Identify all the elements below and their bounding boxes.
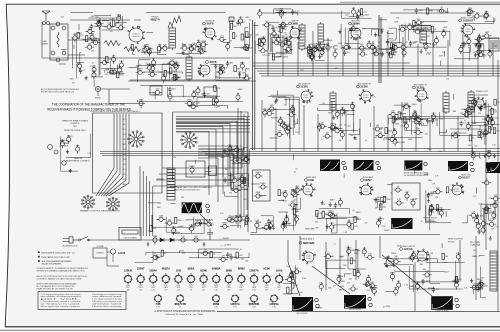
wire <box>272 37 289 52</box>
resistor R131 <box>237 176 246 182</box>
capacitor C132 <box>487 220 496 226</box>
resistor R195 <box>191 236 200 242</box>
capacitor C41 <box>342 44 351 50</box>
wire <box>135 251 153 262</box>
wire <box>387 32 394 33</box>
remote receiver chassis box <box>93 113 163 193</box>
resistor R115 <box>393 137 397 146</box>
ground <box>329 202 332 206</box>
capacitor C36 <box>276 35 280 44</box>
capacitor C33 <box>272 39 281 45</box>
wire <box>409 266 462 289</box>
resistor R96 <box>318 123 327 129</box>
label 3BN6 <box>349 20 362 26</box>
scope cal circle <box>343 166 346 169</box>
resistor R25 <box>232 33 237 39</box>
wire <box>141 85 184 97</box>
capacitor C81 <box>388 111 397 117</box>
capacitor C87 <box>484 131 492 137</box>
ground <box>285 48 288 52</box>
scope calibration W1 <box>206 204 210 208</box>
resistor R88 <box>265 110 274 116</box>
resistor R114 <box>404 117 411 123</box>
wire <box>390 265 413 292</box>
resistor R13 <box>112 20 119 26</box>
capacitor C55 <box>474 41 483 47</box>
tuner coil <box>57 32 59 47</box>
ground <box>175 75 178 79</box>
capacitor C139 <box>368 282 377 288</box>
wire <box>454 38 478 58</box>
capacitor C18 <box>180 44 189 50</box>
resistor R128 <box>245 155 250 164</box>
capacitor C130 <box>427 192 434 198</box>
wire <box>195 223 207 228</box>
ground <box>489 236 492 240</box>
ground <box>432 42 435 46</box>
capacitor C111 <box>282 221 290 227</box>
resistor R65 <box>272 29 276 38</box>
label 3AT8 <box>206 60 217 64</box>
capacitor C51 <box>424 42 429 51</box>
resistor R125 <box>189 165 195 174</box>
resistor R73 <box>309 49 314 58</box>
capacitor C85 <box>464 106 473 112</box>
resistor R66 <box>468 10 475 16</box>
wire <box>335 123 343 128</box>
phono jack tube <box>95 86 100 91</box>
wire <box>493 204 495 220</box>
capacitor C70 <box>291 105 295 114</box>
capacitor C122 <box>374 197 381 203</box>
capacitor C148 <box>410 253 414 262</box>
4.5MC trap box <box>186 161 205 177</box>
resistor R177 <box>287 287 294 293</box>
wire <box>133 52 135 55</box>
resistor R120 <box>139 99 144 108</box>
resistor R171 <box>319 282 324 291</box>
capacitor C136 <box>476 222 481 231</box>
resistor R130 <box>238 182 247 188</box>
harness wire labels <box>123 119 127 186</box>
wire sound line <box>130 79 250 81</box>
wire <box>162 64 171 75</box>
capacitor C123 <box>376 218 381 227</box>
wire <box>319 209 350 214</box>
capacitor C112 <box>285 215 290 224</box>
resistor R176 <box>292 282 299 288</box>
scope cal circle bottom <box>455 298 458 301</box>
resistor R59 <box>413 21 420 27</box>
wire <box>143 72 182 74</box>
wire <box>236 174 248 187</box>
scope cal circle <box>470 162 473 165</box>
capacitor C49 <box>399 43 408 49</box>
resistor R175 <box>290 271 295 280</box>
wire B+ line <box>96 215 250 240</box>
wire <box>483 209 488 219</box>
wire <box>430 209 451 230</box>
resistor R77 <box>392 45 398 51</box>
wire <box>294 204 299 230</box>
balun hatched bar <box>167 168 175 200</box>
ratio det box <box>204 87 217 96</box>
wire <box>101 67 117 69</box>
ground <box>478 230 481 234</box>
wire <box>338 266 340 284</box>
wire rails top small <box>42 13 470 82</box>
capacitor C153 <box>421 279 429 285</box>
resistor R148 <box>328 212 337 218</box>
wire <box>488 207 491 220</box>
resistor R117 <box>484 128 488 137</box>
capacitor C15 <box>236 20 244 26</box>
resistor R211 <box>151 254 160 260</box>
waveform photo W1 vertical sine <box>182 202 202 213</box>
wire <box>462 215 467 223</box>
tube V12 vert osc <box>452 183 464 195</box>
ground <box>475 43 478 47</box>
resistor R81 <box>351 7 356 16</box>
resistor R143 <box>322 211 328 217</box>
resistor R72 <box>488 49 493 58</box>
capacitor C103 <box>232 146 241 152</box>
resistor R210 <box>236 252 243 258</box>
capacitor C79 <box>426 118 434 124</box>
capacitor C66 <box>356 14 364 20</box>
capacitor C9 <box>116 24 125 30</box>
wire <box>272 24 281 38</box>
connector M2 remote interconnect B <box>181 132 198 149</box>
resistor R140 <box>283 190 288 199</box>
scattered tick wires <box>59 20 476 309</box>
scattered annotation texture <box>56 16 497 309</box>
capacitor C137 <box>469 211 478 217</box>
resistor R154 <box>446 187 455 193</box>
capacitor C163 <box>199 220 205 226</box>
resistor R166 <box>365 254 374 260</box>
resistor R29 <box>197 48 206 54</box>
wire <box>61 136 78 171</box>
wire <box>426 258 465 263</box>
resistor R136 <box>288 201 297 207</box>
wire <box>426 206 452 223</box>
capacitor C157 <box>473 284 482 290</box>
capacitor C159 <box>469 98 478 104</box>
capacitor C145 <box>292 268 301 274</box>
capacitor C4 <box>92 65 96 74</box>
wire <box>231 172 249 189</box>
resistor R159 <box>482 205 491 211</box>
capacitor C30 <box>287 39 292 48</box>
wire <box>245 27 248 50</box>
ground <box>238 72 241 76</box>
wire <box>348 128 359 135</box>
ground <box>381 200 384 204</box>
tube V7 3CB6a <box>301 89 313 103</box>
capacitor C72 <box>343 109 349 115</box>
harness vertical bundle to power row <box>140 166 153 236</box>
wire <box>440 112 477 135</box>
resistor R69 <box>481 12 490 18</box>
wire <box>275 13 297 16</box>
resistor R151 <box>383 196 391 202</box>
resistor R24 <box>241 44 250 50</box>
resistor R23 <box>246 32 253 38</box>
capacitor C26 <box>136 69 145 75</box>
resistor R161 <box>482 179 491 185</box>
resistor R174 <box>290 270 294 279</box>
bullet note 2 <box>38 256 40 258</box>
wire vertical drops top band to bus <box>268 28 493 76</box>
tube socket 6CB6 <box>262 268 270 292</box>
resistor R14 <box>94 20 103 26</box>
capacitor C155 <box>477 280 486 286</box>
wire <box>116 65 118 70</box>
resistor R133 <box>253 172 262 178</box>
connector M1 remote interconnect A <box>128 131 145 148</box>
capacitor C14 <box>147 47 152 56</box>
wire <box>317 107 355 110</box>
resistor R201 zigzag <box>104 41 121 46</box>
resistor R26 <box>226 42 230 51</box>
resistor R62 <box>256 40 265 46</box>
wire <box>146 252 222 255</box>
remote brightness pot <box>62 161 66 165</box>
wire <box>271 110 295 128</box>
ground <box>470 279 473 283</box>
wire <box>341 24 391 49</box>
harness wires left box <box>96 114 129 196</box>
capacitor C16 <box>217 35 226 41</box>
service notes text column 2 <box>92 293 123 308</box>
wire <box>317 213 347 218</box>
capacitor C68 <box>279 9 283 18</box>
capacitor C119 <box>334 203 340 209</box>
capacitor C59 <box>261 36 266 45</box>
resistor R184 <box>480 283 488 289</box>
wire <box>344 274 351 277</box>
capacitor C98 <box>214 96 218 105</box>
capacitor C108 <box>237 174 246 180</box>
capacitor C141 <box>370 285 379 291</box>
resistor R170 <box>362 247 367 256</box>
wire <box>232 149 250 163</box>
bus wires middle band <box>100 149 500 156</box>
wire <box>268 97 286 104</box>
wire <box>379 48 395 51</box>
resistor R92 <box>282 122 286 131</box>
wire <box>197 98 217 106</box>
ground <box>418 121 421 125</box>
resistor R206 <box>76 144 81 153</box>
ground <box>66 150 69 154</box>
tube socket 12SN7 <box>136 268 145 292</box>
wire <box>276 43 290 52</box>
resistor R126 <box>241 156 250 162</box>
tube socket 3BN6 <box>225 270 234 292</box>
wire <box>162 61 170 80</box>
ground <box>202 242 205 246</box>
wire diagonal to W8 <box>288 262 300 296</box>
bullet note 3 <box>38 260 40 262</box>
capacitor C3 <box>92 70 96 79</box>
service notes text column 1 <box>41 293 85 308</box>
capacitor C93 <box>431 118 439 124</box>
resistor R18 <box>142 44 151 50</box>
tuner pin <box>62 51 66 55</box>
capacitor C131 <box>433 188 442 194</box>
capacitor C19 <box>190 44 195 53</box>
ground <box>243 179 246 183</box>
resistor R56 <box>413 28 422 34</box>
resistor R38 <box>220 64 225 73</box>
wire <box>477 50 490 53</box>
resistor R139 <box>293 208 300 214</box>
wire <box>464 45 471 53</box>
tube V16 video output <box>474 97 486 109</box>
tube socket 12B4A <box>149 270 157 292</box>
capacitor C61 <box>484 11 489 20</box>
resistor R16 <box>131 44 137 50</box>
tuner pin <box>51 51 55 55</box>
wire <box>381 38 383 56</box>
ground <box>365 282 368 286</box>
wire <box>177 53 202 56</box>
capacitor C113 <box>291 189 297 198</box>
resistor R132 <box>231 182 237 188</box>
resistor R207 <box>60 139 65 148</box>
IF transformer T4 <box>318 22 324 44</box>
capacitor C162 <box>238 214 243 223</box>
resistor R156 <box>436 205 443 211</box>
resistor R123 <box>214 85 221 91</box>
resistor R40 <box>216 68 225 74</box>
wire <box>384 138 423 141</box>
wire <box>411 261 456 282</box>
capacitor C128 <box>430 204 434 213</box>
wire <box>216 67 247 80</box>
resistor R82 <box>258 9 262 18</box>
waveform photo W8 horiz drive <box>292 297 313 311</box>
waveform photo W6 sawtooth <box>486 162 500 173</box>
capacitor C107 <box>231 186 240 192</box>
antenna terminal circles <box>43 22 46 25</box>
diode D1 <box>160 238 164 242</box>
page border bottom <box>5 326 500 328</box>
wire tuner output <box>68 18 130 75</box>
capacitor C90 <box>490 116 498 122</box>
resistor R33 <box>173 74 181 80</box>
scope cal circle bottom <box>315 298 318 301</box>
wire <box>223 39 230 42</box>
capacitor C114 <box>293 186 302 192</box>
audio output transformer T6 <box>489 38 499 51</box>
capacitor C100 <box>185 99 194 105</box>
waveform photo W2 sync waveform <box>320 160 340 172</box>
wire <box>215 63 222 65</box>
ground <box>181 50 184 54</box>
wire <box>349 15 358 17</box>
tube V13 horiz mult <box>302 251 316 264</box>
resistor R138 <box>294 214 300 223</box>
resistor R146 <box>351 223 358 229</box>
VHF tuner box <box>50 24 68 60</box>
resistor R129 <box>243 177 249 183</box>
capacitor C38 <box>316 42 321 51</box>
resistor R121 <box>236 93 240 102</box>
label 6UB <box>305 177 317 182</box>
wire <box>137 65 156 82</box>
label 12CU6 <box>400 246 417 251</box>
resistor R74 <box>320 48 325 57</box>
wire <box>330 217 358 220</box>
waveform photo W7 horiz AFC waveform <box>391 218 412 229</box>
resistor R205 <box>245 219 252 225</box>
label 3CB6 <box>357 84 372 89</box>
resistor R55 <box>402 48 407 57</box>
resistor R98 <box>340 107 345 116</box>
capacitor C65 <box>357 9 361 18</box>
wire <box>234 23 250 48</box>
waveform photo W10 flyback pulse <box>431 296 453 310</box>
capacitor C13 <box>157 44 161 53</box>
scope cal circle <box>342 161 345 164</box>
capacitor C92 <box>388 135 397 141</box>
wire <box>468 48 469 61</box>
tuner pin <box>56 22 60 26</box>
resistor R160 <box>491 195 500 201</box>
ground <box>483 154 486 158</box>
wire <box>217 69 246 78</box>
resistor R134 <box>253 192 262 198</box>
tube socket 12AX8 <box>110 249 115 254</box>
resistor R202 <box>234 215 239 224</box>
resistor R17 <box>160 44 169 50</box>
resistor R71 <box>475 36 484 42</box>
wire <box>66 134 91 158</box>
wire <box>479 256 484 257</box>
capacitor C117 <box>255 221 259 230</box>
ground <box>332 116 335 120</box>
ground <box>326 224 329 228</box>
capacitor C78 <box>402 103 411 109</box>
wire phono jack <box>98 89 145 104</box>
paragraph note B <box>37 275 88 281</box>
wire <box>283 272 292 294</box>
AC plug <box>63 237 78 243</box>
wire <box>166 217 180 233</box>
capacitor C64 <box>307 47 312 56</box>
resistor R108 <box>466 122 471 131</box>
capacitor C167 <box>228 217 237 223</box>
resistor R85 <box>426 8 433 14</box>
tube V3 3AT8 <box>198 64 210 77</box>
wire <box>283 265 295 283</box>
resistor R95 <box>340 130 344 139</box>
wire <box>296 185 298 213</box>
wire <box>315 49 325 60</box>
wire <box>381 197 387 208</box>
capacitor C124 <box>378 217 384 223</box>
capacitor C76 <box>335 110 340 119</box>
wire <box>116 22 127 27</box>
capacitor C32 <box>279 21 288 27</box>
capacitor C42 <box>386 39 393 45</box>
capacitor C28 <box>219 65 228 71</box>
resistor R149 <box>316 210 323 216</box>
resistor R158 <box>479 220 488 226</box>
